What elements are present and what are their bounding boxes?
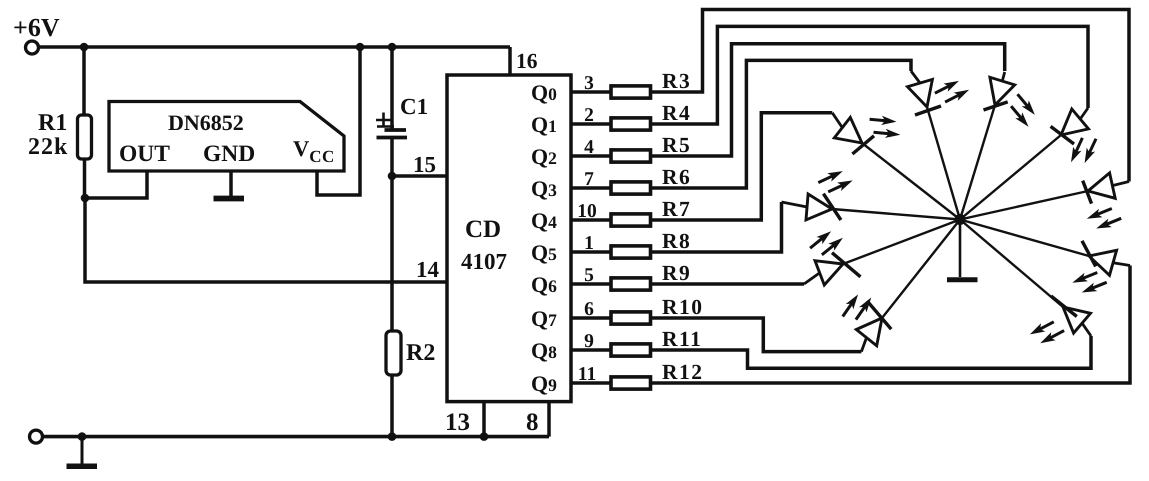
wire: U1 OUT pin down and left to R1 node — [85, 171, 147, 198]
capacitor C1 (polarized) — [376, 113, 407, 138]
svg-text:OUT: OUT — [119, 141, 170, 167]
node: LED common cathode hub — [955, 214, 966, 225]
LED D1 (driven by Q4 via R7) — [832, 113, 874, 154]
svg-text:Q0: Q0 — [531, 80, 557, 105]
wire: pin 8 to ground rail — [547, 402, 551, 437]
wire: LED D10 cathode to common hub — [832, 209, 960, 220]
wire: ground rail — [43, 435, 550, 439]
wire: R3 output to LED D5 anode (top outer route) — [651, 10, 1130, 182]
resistor R4 — [611, 118, 651, 130]
wire: U1 GND pin stub — [229, 171, 233, 197]
svg-text:DN6852: DN6852 — [168, 110, 244, 135]
wire: rail to R1 top — [82, 47, 86, 115]
svg-text:Q3: Q3 — [531, 176, 557, 201]
svg-text:9: 9 — [584, 331, 594, 352]
svg-text:15: 15 — [413, 152, 436, 177]
svg-text:R4: R4 — [662, 101, 691, 125]
wire: rail down to C1 top — [390, 47, 394, 130]
light-emission arrows of LED D5 — [1087, 209, 1121, 229]
node Q9 pin wire (pin 11) — [571, 381, 611, 385]
svg-text:Q9: Q9 — [531, 371, 557, 396]
wire: +6V supply rail — [39, 45, 511, 49]
wire: R6 output to LED D2 anode — [651, 60, 912, 188]
wire: ground stub bottom left — [81, 437, 84, 464]
svg-text:GND: GND — [203, 141, 255, 167]
wire: C1 bottom to pin15 node — [390, 138, 394, 177]
node Q2 pin wire (pin 4) — [571, 154, 611, 158]
node Q5 pin wire (pin 1) — [571, 250, 611, 254]
svg-text:Q6: Q6 — [531, 272, 557, 297]
wire: pin 13 to ground rail — [482, 402, 486, 437]
svg-text:R5: R5 — [662, 133, 691, 157]
svg-text:1: 1 — [584, 233, 594, 254]
node Q7 pin wire (pin 6) — [571, 316, 611, 320]
wire: rail drop to pin 16 of U2 — [508, 47, 512, 75]
junction: R2 on ground rail — [388, 432, 397, 441]
wire: LED D9 cathode to common hub — [843, 220, 960, 265]
node Q4 pin wire (pin 10) — [571, 218, 611, 222]
node Q6 pin wire (pin 5) — [571, 282, 611, 286]
wire: R10 output to LED D8 anode — [651, 318, 862, 352]
wire: LED D6 cathode to common hub — [960, 220, 1089, 257]
wire: OUT node down to pin 14 of U2 — [85, 198, 447, 282]
terminal: +6V input — [26, 41, 39, 54]
svg-text:R2: R2 — [406, 340, 435, 366]
terminal: 0V input — [30, 430, 43, 443]
LED D5 (driven by Q0 via R3) — [1083, 173, 1129, 204]
wire: LED D8 cathode to common hub — [882, 220, 960, 319]
svg-text:2: 2 — [584, 105, 594, 126]
svg-text:22k: 22k — [28, 134, 68, 160]
junction on rail at Vcc branch — [356, 43, 365, 52]
wire: R4 output to LED D4 anode — [651, 26, 1089, 124]
svg-text:R6: R6 — [662, 165, 691, 189]
node Q8 pin wire (pin 9) — [571, 348, 611, 352]
light-emission arrows of LED D2 — [935, 81, 969, 102]
junction on rail at C1 branch — [388, 43, 397, 52]
light-emission arrows of LED D6 — [1072, 273, 1106, 293]
wire: node to pin 15 of U2 — [392, 174, 447, 178]
resistor R10 — [611, 312, 651, 324]
IC U1 DN6852 (infrared sensor IC body) — [109, 102, 344, 172]
svg-text:11: 11 — [578, 364, 596, 385]
resistor R9 — [611, 278, 651, 290]
svg-text:Q4: Q4 — [531, 208, 557, 233]
svg-text:16: 16 — [516, 49, 538, 73]
resistor R1 — [78, 115, 92, 159]
light-emission arrows of LED D8 — [843, 294, 872, 319]
wire: LED D5 cathode to common hub — [960, 191, 1088, 220]
light-emission arrows of LED D9 — [810, 231, 843, 255]
wire: LED D1 cathode to common hub — [862, 143, 960, 220]
wire: LED D4 cathode to common hub — [960, 135, 1061, 220]
svg-text:10: 10 — [577, 201, 597, 222]
resistor R11 — [611, 344, 651, 356]
junction at OUT node — [81, 194, 90, 203]
LED D2 (driven by Q3 via R6) — [908, 71, 942, 115]
junction at pin15 node — [388, 172, 397, 181]
wire: R8 output to LED D10 anode — [651, 202, 782, 252]
svg-text:R7: R7 — [662, 197, 691, 221]
svg-text:R12: R12 — [662, 360, 704, 384]
node Q3 pin wire (pin 7) — [571, 186, 611, 190]
svg-text:Q7: Q7 — [531, 306, 557, 331]
wire: LED D2 cathode to common hub — [927, 107, 960, 220]
light-emission arrows of LED D4 — [1071, 138, 1096, 163]
LED D4 (driven by Q1 via R4) — [1051, 108, 1089, 144]
junction on rail at R1 — [80, 43, 89, 52]
light-emission arrows of LED D10 — [818, 171, 852, 192]
wire: R11 output to LED D7 anode — [651, 336, 1092, 368]
svg-text:Q8: Q8 — [531, 338, 557, 363]
svg-text:CD: CD — [465, 216, 501, 243]
ground symbol under LED hub — [947, 277, 978, 282]
LED D6 (driven by Q9 via R12) — [1082, 241, 1130, 275]
ground symbol under U1 — [214, 196, 245, 202]
svg-text:Q2: Q2 — [531, 144, 557, 169]
svg-text:R8: R8 — [662, 229, 691, 253]
svg-text:R10: R10 — [662, 295, 704, 319]
resistor R2 — [386, 331, 401, 375]
svg-text:R11: R11 — [662, 327, 702, 351]
svg-text:13: 13 — [445, 409, 470, 436]
svg-text:5: 5 — [584, 265, 594, 286]
wire: U1 Vcc pin to +6V rail — [317, 47, 360, 195]
svg-text:+6V: +6V — [13, 13, 60, 42]
resistor R8 — [611, 246, 651, 258]
resistor R6 — [611, 182, 651, 194]
svg-text:Q1: Q1 — [531, 112, 557, 137]
light-emission arrows of LED D1 — [870, 116, 901, 138]
junction: pin 13 on ground rail — [480, 432, 489, 441]
wire: LED D7 cathode to common hub — [960, 220, 1063, 308]
resistor R7 — [611, 214, 651, 226]
svg-text:6: 6 — [584, 299, 594, 320]
svg-text:R9: R9 — [662, 261, 691, 285]
LED D10 (driven by Q5 via R8) — [782, 194, 841, 220]
ground symbol bottom left — [67, 464, 98, 470]
svg-text:4107: 4107 — [461, 249, 507, 274]
wire: R1 bottom to OUT node — [83, 159, 87, 198]
wire: R5 output to LED D3 anode — [651, 44, 1005, 156]
wire: R9 output to LED D9 anode — [651, 282, 805, 286]
junction: ground tap on rail — [78, 432, 87, 441]
wire: R12 output to LED D6 anode — [651, 266, 1131, 384]
node Q1 pin wire (pin 2) — [571, 122, 611, 126]
svg-text:C1: C1 — [400, 94, 428, 119]
svg-text:R3: R3 — [662, 69, 691, 93]
svg-text:14: 14 — [416, 257, 440, 282]
resistor R5 — [611, 150, 651, 162]
svg-text:4: 4 — [584, 137, 594, 158]
wire: R2 bottom to ground rail — [390, 375, 394, 437]
IC U2 CD4107 counter — [447, 75, 571, 402]
svg-text:3: 3 — [584, 73, 594, 94]
wire: hub to ground — [959, 220, 962, 278]
svg-text:R1: R1 — [38, 110, 67, 136]
wire: R7 output to LED D1 anode — [651, 113, 833, 220]
svg-text:Q5: Q5 — [531, 240, 557, 265]
resistor R3 — [611, 86, 651, 98]
LED D3 (driven by Q2 via R5) — [984, 72, 1015, 110]
svg-text:7: 7 — [584, 169, 594, 190]
LED D8 (driven by Q7 via R10) — [856, 301, 891, 352]
resistor R12 — [611, 377, 651, 389]
light-emission arrows of LED D3 — [1011, 94, 1035, 127]
wire: LED D3 cathode to common hub — [960, 105, 995, 220]
svg-text:8: 8 — [526, 409, 539, 436]
node Q0 pin wire (pin 3) — [571, 90, 611, 94]
LED D9 (driven by Q6 via R9) — [804, 253, 861, 285]
LED D7 (driven by Q8 via R11) — [1051, 296, 1091, 336]
wire: node down to R2 top — [390, 176, 394, 330]
light-emission arrows of LED D7 — [1030, 322, 1064, 343]
